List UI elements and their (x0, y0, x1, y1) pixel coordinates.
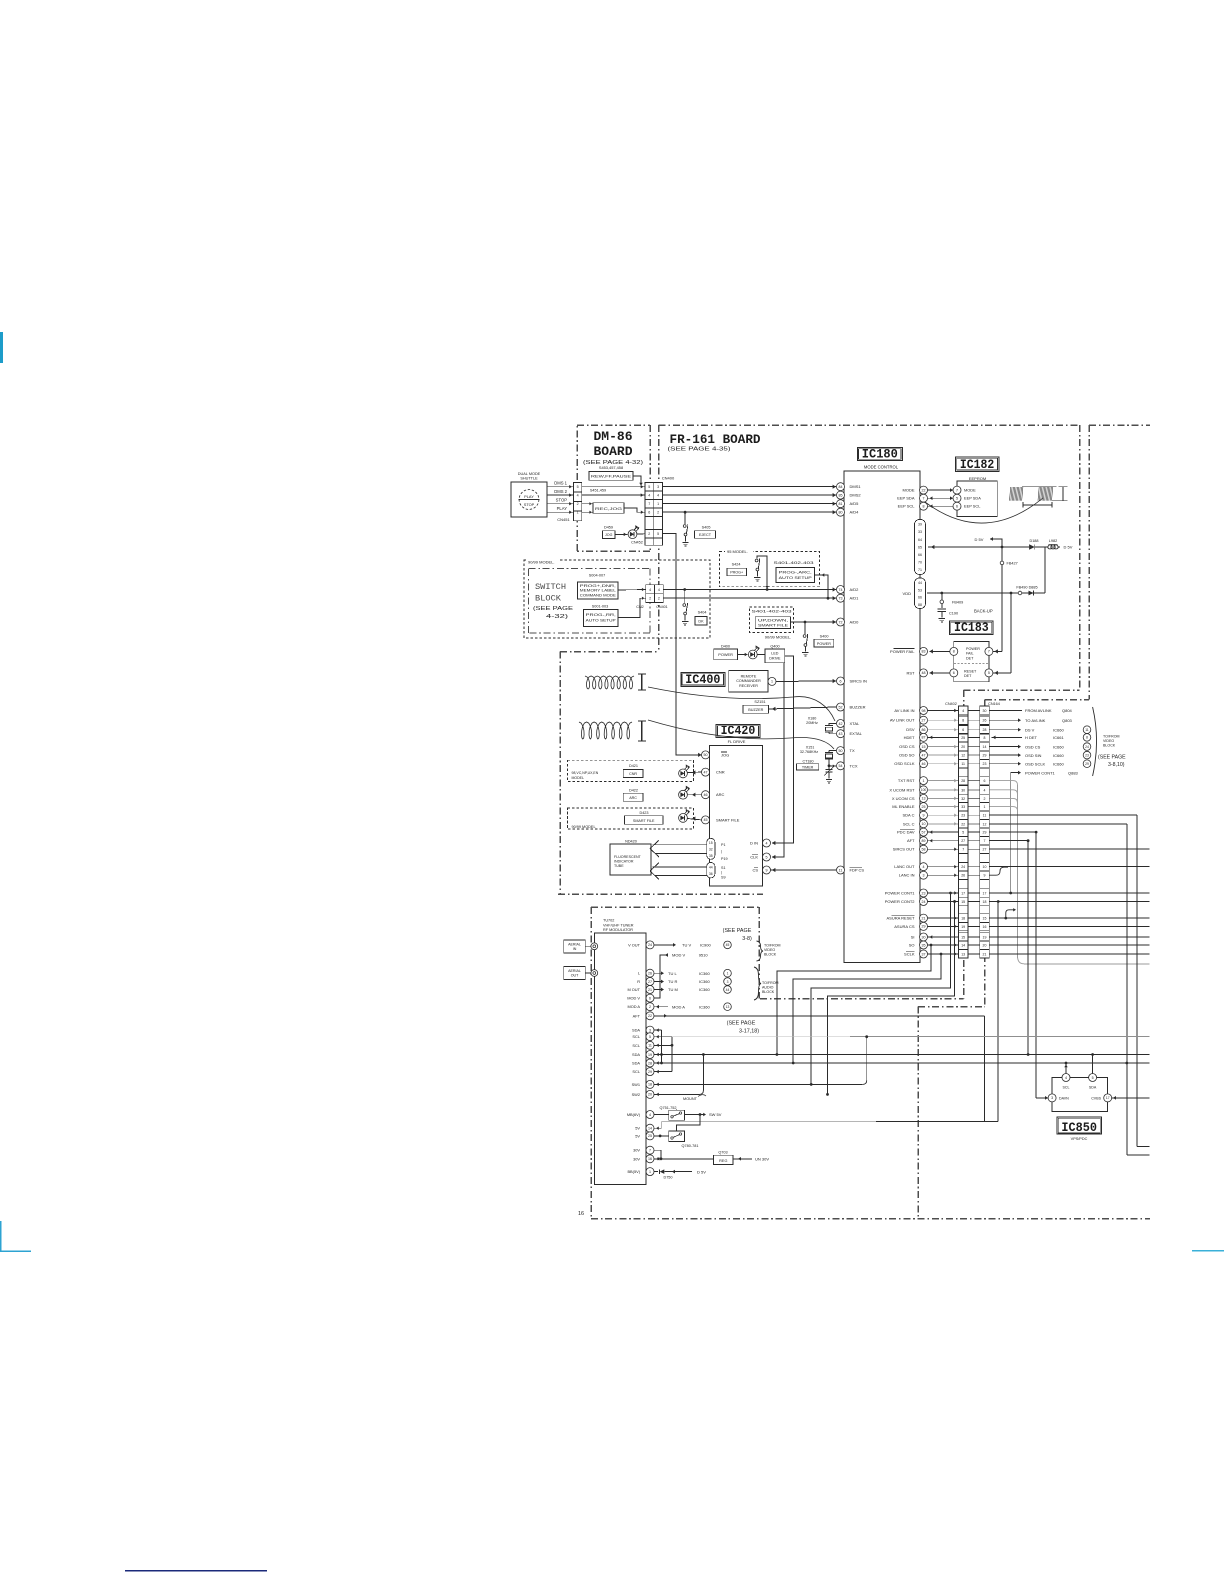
wire A/D4 to IC180 (663, 511, 837, 513)
svg-text:1: 1 (657, 502, 659, 506)
svg-text:44: 44 (726, 988, 730, 992)
switch S400 POWER (804, 622, 806, 634)
fluorescent indicator tube ND420 (610, 844, 651, 875)
wire OSD SCLK out (989, 763, 1020, 765)
svg-text:DK: DK (698, 620, 704, 624)
svg-text:14: 14 (961, 944, 965, 948)
svg-text:SO: SO (909, 943, 915, 948)
IR coil antenna lower (579, 722, 632, 739)
pin 10 SCL C IC180 (920, 820, 928, 828)
ferrite bead FB409 (941, 593, 943, 600)
wire X UCOM CS elbow (989, 798, 1017, 803)
pin 17 CVBS IC850 (1104, 1094, 1112, 1102)
svg-text:DAVN: DAVN (1059, 1096, 1069, 1100)
svg-text:13: 13 (922, 797, 926, 801)
switch block PROG+ DNR MEMORY LABEL COMMAND MODE (578, 582, 618, 599)
svg-text:TO/FROM: TO/FROM (764, 944, 781, 948)
svg-text:5: 5 (962, 831, 964, 835)
svg-text:CNR: CNR (716, 770, 725, 775)
svg-text:50: 50 (704, 753, 708, 757)
svg-text:5V: 5V (635, 1133, 640, 1138)
wire RIRCB IN (776, 680, 836, 682)
svg-text:4: 4 (658, 588, 660, 592)
pin 45 SMART FILE (702, 816, 710, 824)
svg-text:43: 43 (839, 732, 843, 736)
svg-text:5: 5 (956, 497, 958, 501)
svg-text:90/99 MODEL.: 90/99 MODEL. (528, 560, 554, 565)
svg-text:TU702: TU702 (603, 919, 614, 923)
svg-text:88: 88 (918, 603, 922, 607)
svg-text:45: 45 (726, 943, 730, 947)
pin 5 CLK (763, 853, 771, 861)
svg-text:IN: IN (573, 947, 577, 951)
svg-text:R: R (637, 979, 640, 984)
pin 4 SCL IC850 (1062, 1074, 1070, 1082)
wire FROM AVLINK (989, 710, 1022, 712)
svg-text:SWITCH: SWITCH (535, 582, 566, 592)
LED D400 (748, 650, 757, 659)
IC U IC420 label (716, 724, 760, 737)
svg-text:S1: S1 (721, 866, 726, 870)
pin 4 LANC OUT IC180 (920, 863, 928, 871)
svg-text:27: 27 (648, 980, 652, 984)
svg-text:29: 29 (922, 925, 926, 929)
svg-text:SW 5V: SW 5V (709, 1112, 722, 1117)
svg-text:DRIVE: DRIVE (769, 657, 781, 661)
svg-text:ND420: ND420 (625, 840, 637, 844)
svg-text:MODEL: MODEL (572, 776, 585, 780)
pin 45 IC900 (724, 941, 732, 949)
wire EEP SCL (928, 505, 954, 507)
svg-text:7: 7 (962, 848, 964, 852)
svg-text:S404: S404 (698, 611, 707, 615)
svg-text:25: 25 (922, 805, 926, 809)
svg-text:SDA: SDA (1089, 1085, 1097, 1089)
svg-text:6: 6 (649, 996, 651, 1000)
svg-text:12: 12 (961, 754, 965, 758)
svg-text:22: 22 (961, 822, 965, 826)
wire DMS 2 (547, 494, 574, 496)
svg-text:18: 18 (961, 917, 965, 921)
leader arc under IC182 (925, 498, 1043, 523)
pin 46 OSD SCLK IC180 (920, 760, 928, 768)
svg-text:D400: D400 (721, 644, 730, 648)
pin 98 AV LINK IN IC180 (920, 707, 928, 715)
svg-text:A/D5: A/D5 (850, 501, 860, 506)
wire POWER FAIL (930, 650, 950, 652)
svg-text:98: 98 (922, 709, 926, 713)
wire 30V pair (654, 1149, 661, 1151)
svg-text:100: 100 (921, 788, 927, 792)
svg-text:REMOTE: REMOTE (741, 675, 757, 679)
svg-text:14: 14 (648, 1127, 652, 1131)
svg-text:IC360: IC360 (699, 1004, 710, 1009)
svg-text:47: 47 (922, 753, 926, 757)
svg-text:36: 36 (709, 872, 713, 876)
svg-text:Q400: Q400 (770, 644, 779, 648)
pin 11 IC660 (1083, 726, 1091, 734)
svg-text:FR-161 BOARD: FR-161 BOARD (670, 433, 762, 447)
svg-text:89: 89 (922, 839, 926, 843)
svg-text:DSV: DSV (906, 727, 915, 732)
pin 1 IC360 (724, 969, 732, 977)
svg-text:3: 3 (649, 1028, 651, 1032)
svg-text:8: 8 (1086, 736, 1088, 740)
box SMART FILE D423 (625, 816, 664, 825)
svg-text:CNR: CNR (629, 772, 637, 776)
svg-text:REW,FF,PAUSE: REW,FF,PAUSE (591, 475, 632, 479)
svg-text:A/D2: A/D2 (850, 587, 860, 592)
junction S404 (683, 588, 686, 591)
wire SCL tie (654, 1036, 672, 1038)
wire DAVN in (1036, 1097, 1048, 1099)
svg-text:TX: TX (850, 748, 855, 753)
svg-text:7: 7 (988, 650, 990, 654)
wire PROG+ to CN2 (618, 589, 646, 592)
box 98 VC NP UX EN MODEL (568, 760, 694, 781)
svg-text:LANC IN: LANC IN (899, 873, 915, 878)
svg-text:22: 22 (648, 1014, 652, 1018)
svg-text:TU R: TU R (668, 979, 677, 984)
svg-text:16: 16 (648, 1157, 652, 1161)
pin 5 IC183 (985, 669, 993, 677)
pin 7 IC183 (985, 647, 993, 655)
svg-text:21: 21 (922, 916, 926, 920)
svg-text:D 5V: D 5V (1064, 545, 1073, 550)
board bottom border (591, 1218, 1150, 1220)
svg-text:FB409: FB409 (952, 600, 963, 604)
svg-text:4: 4 (649, 1113, 651, 1117)
IC U IC850 label (1057, 1117, 1102, 1134)
svg-text:8: 8 (962, 719, 964, 723)
svg-text:DMS2: DMS2 (850, 493, 862, 498)
svg-text:23: 23 (961, 814, 965, 818)
wire SMART FILE to A/D0 (791, 621, 836, 623)
svg-text:CLK: CLK (750, 855, 758, 860)
svg-text:SMART FILE: SMART FILE (758, 624, 789, 628)
blue registration bar left (0, 332, 3, 363)
svg-text:46: 46 (922, 762, 926, 766)
pin 11 FDP CS IC180 (837, 866, 845, 874)
wire MOD V 9510 (654, 955, 666, 998)
svg-text:S405: S405 (702, 526, 711, 530)
svg-text:29: 29 (1085, 762, 1089, 766)
svg-text:S001-003: S001-003 (592, 604, 608, 608)
svg-text:30: 30 (983, 709, 987, 713)
svg-text:OSD SCLK: OSD SCLK (894, 761, 915, 766)
wire JOG to LED D452 (615, 533, 628, 535)
pin 57 PDC DAV IC180 (920, 828, 928, 836)
svg-text:IC183: IC183 (954, 620, 989, 635)
svg-text:REG: REG (719, 1159, 727, 1163)
svg-text:EEP SDA: EEP SDA (897, 496, 915, 501)
wire CS to FDP CS (771, 869, 837, 871)
svg-text:4: 4 (962, 709, 964, 713)
svg-text:VPS/PDC: VPS/PDC (1071, 1137, 1088, 1141)
svg-text:BUZZER: BUZZER (850, 705, 866, 710)
svg-text:1: 1 (649, 1170, 651, 1174)
blue crop mark bottom-left (0, 1221, 2, 1252)
svg-text:IC660: IC660 (1053, 727, 1064, 732)
svg-text:2: 2 (657, 511, 659, 515)
pin 48 RST IC180 (920, 669, 928, 677)
wire SDA C (989, 814, 1137, 816)
svg-text:UN 30V: UN 30V (755, 1157, 769, 1162)
svg-text:4: 4 (984, 788, 986, 792)
svg-text:EEPROM: EEPROM (969, 476, 986, 481)
svg-text:24: 24 (922, 900, 926, 904)
svg-text:98,VC,NP,UX,EN: 98,VC,NP,UX,EN (572, 771, 599, 775)
board FR-161 border (659, 424, 1080, 426)
svg-text:DS V: DS V (1025, 727, 1035, 732)
svg-text:2: 2 (649, 1005, 651, 1009)
IR coil antenna upper (585, 676, 634, 689)
wire XTAL stub (829, 723, 837, 725)
svg-text:15: 15 (709, 841, 713, 845)
svg-text:(SEE PAGE: (SEE PAGE (723, 928, 752, 934)
svg-text:FROM AVLINK: FROM AVLINK (1025, 708, 1052, 713)
svg-text:7: 7 (923, 497, 925, 501)
wire TU V (654, 944, 675, 946)
pin 23 IC660 (1083, 751, 1091, 759)
svg-text:D750: D750 (663, 1176, 672, 1180)
board DM-86 border (577, 424, 650, 426)
svg-text:X UCOM RST: X UCOM RST (889, 787, 915, 792)
svg-text:HDET: HDET (904, 735, 915, 740)
pin 21 ASURA RESET IC180 (920, 914, 928, 922)
svg-text:CN451: CN451 (557, 517, 570, 522)
svg-text:44: 44 (709, 865, 713, 869)
svg-text:8: 8 (984, 736, 986, 740)
svg-text:53: 53 (918, 588, 922, 592)
svg-text:28: 28 (983, 728, 987, 732)
svg-text:DET: DET (964, 674, 972, 678)
timer box (797, 764, 819, 770)
svg-text:FDP CS: FDP CS (850, 868, 865, 873)
svg-text:26: 26 (961, 874, 965, 878)
svg-text:72: 72 (839, 620, 843, 624)
svg-text:SW1: SW1 (632, 1082, 640, 1087)
svg-text:XTAL: XTAL (850, 721, 860, 726)
svg-text:JOG: JOG (605, 533, 613, 537)
svg-text:POWER CONT1: POWER CONT1 (1025, 770, 1056, 775)
wire rail corner (1044, 547, 1046, 593)
wire SDA28 row (654, 1062, 1150, 1064)
wire PC2 drop to switches (997, 902, 999, 1122)
wire TU R (654, 981, 663, 983)
LED D421 (679, 769, 688, 778)
svg-text:70: 70 (918, 561, 922, 565)
wire VDD rail (927, 592, 1045, 594)
transistor Q400 LED DRIVE (757, 654, 765, 656)
video block bracket TU (757, 941, 764, 961)
IC U IC182 label (955, 457, 998, 471)
svg-text:VIDEO: VIDEO (764, 948, 775, 952)
svg-text:(SEE PAGE: (SEE PAGE (533, 606, 573, 612)
svg-text:10: 10 (922, 822, 926, 826)
svg-text:MOD A: MOD A (627, 1004, 640, 1009)
svg-text:A/D4: A/D4 (850, 510, 860, 515)
svg-text:IC661: IC661 (1053, 735, 1064, 740)
pin 50 TX IC180 (837, 747, 845, 755)
wire OSD SIN (989, 754, 1020, 756)
svg-text:Q751-752: Q751-752 (660, 1106, 677, 1110)
svg-text:COMMANDER: COMMANDER (736, 679, 761, 683)
pin 9 SDA C IC180 (920, 811, 928, 819)
svg-text:1: 1 (577, 511, 579, 515)
pin 27 AV LINK OUT IC180 (920, 716, 928, 724)
svg-text:4: 4 (648, 494, 650, 498)
pin 50 JOG (702, 751, 710, 759)
svg-text:A/D1: A/D1 (850, 596, 860, 601)
svg-text:3-8,10): 3-8,10) (1108, 762, 1125, 768)
svg-text:SCL: SCL (632, 1043, 640, 1048)
svg-text:52: 52 (839, 705, 843, 709)
wire SW 5V (684, 1114, 700, 1116)
wire REW FF PAUSE to CN400 (633, 476, 641, 484)
wire PROG- ARC to A/D1 (815, 575, 829, 597)
navy footer rule (125, 1570, 267, 1571)
wire DMS2 to IC180 (663, 494, 837, 496)
svg-text:PROG-,ARC,: PROG-,ARC, (779, 570, 812, 574)
svg-text:3-8): 3-8) (742, 936, 752, 942)
svg-text:AERIAL: AERIAL (568, 969, 581, 973)
svg-text:L982: L982 (1049, 539, 1057, 543)
wire SCLK row (989, 953, 1149, 955)
svg-text:LANC OUT: LANC OUT (894, 864, 915, 869)
svg-text:MODE: MODE (964, 488, 976, 493)
svg-text:PROG-,RR,: PROG-,RR, (586, 613, 616, 617)
crystal X180 (829, 723, 836, 725)
pin 6 IC183 (950, 669, 958, 677)
svg-text:11: 11 (1085, 728, 1089, 732)
svg-text:EEP SDA: EEP SDA (964, 496, 981, 501)
wire bundle W2 SCLK to SDA row (940, 953, 943, 956)
svg-text:SCLK: SCLK (904, 952, 915, 957)
box CNR (623, 769, 643, 777)
pin 74 A/D2 IC180 (837, 586, 845, 594)
wire SW1 (654, 1083, 863, 1085)
svg-text:32: 32 (709, 847, 713, 851)
svg-text:5: 5 (988, 671, 990, 675)
svg-text:VIDEO: VIDEO (1103, 739, 1114, 743)
svg-text:90/99 MODEL: 90/99 MODEL (572, 825, 596, 829)
wire Q751 to Q780 (677, 1115, 701, 1132)
svg-text:25: 25 (648, 1134, 652, 1138)
svg-text:POWER FAIL: POWER FAIL (890, 649, 915, 654)
wire bundle W4 PC2 to SW2 (953, 900, 956, 903)
pin 43 EXTAL IC180 (837, 730, 845, 738)
svg-text:RST: RST (907, 670, 916, 675)
svg-text:P19: P19 (721, 857, 728, 861)
pin 72 A/D0 IC180 (837, 618, 845, 626)
svg-text:20MHz: 20MHz (806, 721, 818, 725)
svg-text:ML ENABLE: ML ENABLE (892, 804, 915, 809)
svg-text:37: 37 (922, 952, 926, 956)
svg-text:45: 45 (704, 818, 708, 822)
wire MOD A (654, 1006, 668, 1008)
svg-text:TIMER: TIMER (802, 766, 814, 770)
switch block UP DOWN SMART FILE (755, 617, 790, 629)
dual mode shuttle knob (511, 482, 547, 517)
svg-text:D 5V: D 5V (975, 537, 984, 542)
pin 86 DSV IC180 (920, 726, 928, 734)
svg-text:5: 5 (648, 485, 650, 489)
svg-text:39: 39 (918, 523, 922, 527)
switch Q780-781 (669, 1131, 685, 1142)
wire D452 to CN400 (637, 533, 645, 536)
pin 13 X UCOM CS IC180 (920, 794, 928, 802)
svg-text:35: 35 (709, 854, 713, 858)
svg-text:MOD V: MOD V (627, 996, 640, 1001)
svg-text:4: 4 (923, 865, 925, 869)
pin 3 IC360 (724, 978, 732, 986)
pin 23 POWER CONT1 IC180 (920, 889, 928, 897)
svg-text:17: 17 (983, 892, 987, 896)
svg-text:PLAY: PLAY (557, 506, 568, 511)
wire POWER to LED (738, 654, 748, 656)
svg-text:D IN: D IN (750, 841, 758, 846)
pin 81 A/D5 IC180 (837, 500, 845, 508)
svg-text:28: 28 (961, 779, 965, 783)
svg-text:TO/FROM: TO/FROM (762, 981, 779, 985)
svg-text:X180: X180 (808, 716, 817, 720)
svg-text:85: 85 (839, 493, 843, 497)
wire MODE (928, 489, 954, 491)
svg-text:REC,JOG: REC,JOG (595, 507, 622, 511)
wire gray bundle vertical (1017, 785, 1019, 958)
svg-text:11: 11 (961, 762, 965, 766)
svg-text:EEP SCL: EEP SCL (898, 504, 916, 509)
svg-text:MOD V: MOD V (672, 953, 685, 958)
svg-text:TU M: TU M (668, 987, 678, 992)
svg-text:A/D0: A/D0 (850, 620, 860, 625)
svg-text:84: 84 (839, 485, 843, 489)
svg-text:TU V: TU V (682, 943, 691, 948)
svg-text:PROG+: PROG+ (730, 571, 743, 575)
svg-text:OSD CS: OSD CS (899, 744, 915, 749)
svg-text:(SEE PAGE: (SEE PAGE (1098, 755, 1126, 761)
svg-text:ARC: ARC (716, 792, 725, 797)
pin stack S1-S9 (707, 862, 715, 878)
svg-text:4-32): 4-32) (546, 614, 568, 620)
svg-text:ASURA RESET: ASURA RESET (886, 916, 915, 921)
svg-text:SIRCS IN: SIRCS IN (850, 679, 867, 684)
svg-text:M OUT: M OUT (627, 987, 640, 992)
svg-text:S400: S400 (820, 634, 829, 638)
wire PLAY (547, 511, 574, 513)
svg-text:50: 50 (839, 749, 843, 753)
wire DMS1 to IC180 (663, 486, 837, 488)
crystal X151 (829, 750, 836, 752)
svg-text:SIRCS OUT: SIRCS OUT (893, 847, 915, 852)
wire ASURA CS row (989, 925, 1149, 927)
wire pin5 feed (993, 672, 1011, 674)
wire SO row (989, 944, 1149, 946)
svg-text:FL DRIVE: FL DRIVE (728, 739, 746, 744)
trimmer capacitor CT180 (828, 766, 830, 769)
svg-text:3: 3 (657, 485, 659, 489)
svg-text:PDC DAV: PDC DAV (897, 830, 915, 835)
svg-text:7: 7 (648, 502, 650, 506)
branch D 5V arrow (990, 539, 1002, 547)
svg-text:TU L: TU L (668, 971, 677, 976)
svg-text:5: 5 (657, 532, 659, 536)
wire SI row (989, 936, 1149, 938)
wire 5V 14 stub (654, 1127, 662, 1129)
svg-text:15: 15 (922, 745, 926, 749)
svg-text:18: 18 (648, 1083, 652, 1087)
